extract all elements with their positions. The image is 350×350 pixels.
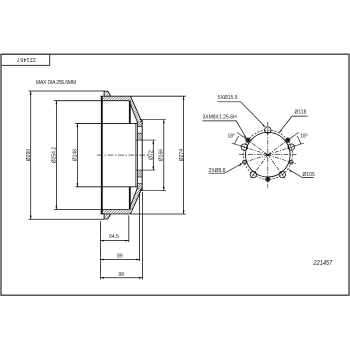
svg-text:221457: 221457 — [313, 259, 333, 267]
flange front face — [136, 122, 138, 188]
svg-text:5XØ15.5: 5XØ15.5 — [218, 95, 238, 101]
svg-text:18°: 18° — [228, 133, 236, 139]
hub register line — [135, 123, 137, 187]
svg-text:3XM8X1.25-6H: 3XM8X1.25-6H — [203, 115, 238, 121]
flange top edge r166 + extension — [140, 119, 166, 121]
title box — [1, 54, 50, 65]
hatch bottom rim band — [100, 188, 142, 219]
hatch flange top part — [137, 121, 142, 141]
svg-text:Ø105: Ø105 — [303, 172, 315, 178]
flange bottom edge r166 + extension — [140, 190, 166, 192]
svg-text:2XØ8.8: 2XØ8.8 — [209, 168, 226, 174]
bottom cone outer — [131, 188, 143, 214]
dim dia290 — [30, 91, 32, 219]
flange back face — [141, 120, 143, 191]
flange circle dia105 — [245, 132, 290, 177]
svg-text:Ø274: Ø274 — [179, 149, 185, 161]
dim dia166 — [163, 120, 165, 191]
dia148 top line + extension — [75, 122, 137, 124]
dim 64.5 — [100, 240, 128, 242]
dim dia148 — [76, 123, 78, 186]
dim dia290 extension lines — [29, 90, 105, 92]
leader dia118 — [279, 116, 307, 132]
leader dia105 — [289, 169, 314, 177]
top cone outer — [131, 96, 143, 122]
18deg wedge left — [237, 132, 246, 139]
border frame — [1, 54, 349, 295]
svg-text:221457: 221457 — [17, 56, 36, 62]
18deg wedge right — [289, 132, 298, 139]
bottom back wall line — [129, 187, 131, 210]
bottom rim outer surface + dia274 extension line — [104, 213, 186, 215]
dim 98 — [100, 277, 142, 279]
pilot bore dia72 top edge + extension — [136, 139, 156, 141]
pilot bore dia72 bottom edge + extension — [136, 169, 156, 171]
top lip outline — [100, 91, 110, 96]
hatch top rim band — [100, 91, 142, 122]
leader 3XM8X1.25-6H — [203, 121, 247, 138]
dim dia274 — [183, 96, 185, 214]
top braking surface dia254.2 + extension — [54, 100, 129, 102]
bolt circle dia118 (dashed) — [243, 130, 292, 179]
svg-text:MAX DIA 255.6MM: MAX DIA 255.6MM — [36, 80, 76, 86]
svg-text:Ø166: Ø166 — [158, 149, 164, 161]
centerline (axis) — [97, 154, 149, 156]
svg-text:Ø118: Ø118 — [295, 110, 307, 116]
svg-text:Ø72: Ø72 — [149, 150, 155, 160]
dim dia72 — [152, 140, 154, 170]
leader 5X dia15.5 — [218, 102, 266, 127]
svg-text:18°: 18° — [300, 133, 308, 139]
bottom extension lines — [99, 221, 101, 279]
top cone inner — [129, 101, 137, 122]
hatch flange bottom part — [137, 170, 142, 189]
svg-text:64.5: 64.5 — [109, 234, 119, 240]
svg-text:Ø290: Ø290 — [26, 149, 32, 161]
bolt hole edges in flange (top) — [137, 126, 142, 128]
dim dia254.2 — [55, 101, 57, 210]
svg-text:98: 98 — [119, 272, 125, 278]
drum open face (thick left edge) — [101, 96, 103, 214]
wheel bolt holes 5x dia15.5 — [241, 127, 294, 178]
bottom lip outline — [100, 214, 110, 219]
horizontal centerline — [239, 154, 297, 156]
leader 2X dia8.8 — [209, 164, 242, 174]
dia148 bottom line + extension — [75, 186, 137, 188]
bolt hole edges in flange (bottom) — [137, 176, 142, 178]
dim 89 — [100, 259, 139, 261]
holes 2x dia8.8 — [243, 160, 294, 164]
svg-text:Ø254.2: Ø254.2 — [52, 147, 58, 164]
vertical centerline — [267, 122, 269, 188]
svg-text:Ø148: Ø148 — [73, 149, 79, 161]
radial centerlines — [240, 137, 297, 179]
threaded holes 3x M8 — [246, 138, 290, 182]
top back wall line — [129, 101, 131, 124]
bottom cone inner — [129, 188, 137, 209]
svg-text:89: 89 — [117, 254, 123, 260]
top rim outer surface + dia274 extension line — [104, 95, 186, 97]
bottom braking surface + extension — [54, 209, 129, 211]
